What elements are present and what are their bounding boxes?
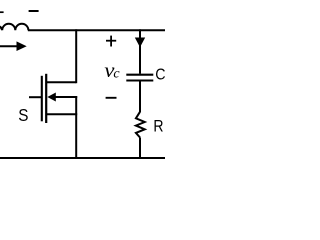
wire (top rail)	[28, 29, 165, 31]
capacitor current arrowhead	[135, 38, 145, 48]
inductor L	[0, 24, 28, 31]
svg-text:C: C	[155, 66, 165, 84]
wire (cropped stub, top-left corner)	[0, 11, 4, 13]
wire (body/source down to bottom rail)	[75, 96, 77, 159]
transistor Q (switch S) gate lead	[29, 96, 42, 98]
label minus (inductor voltage polarity)	[29, 10, 39, 12]
inductor current arrowhead	[17, 41, 27, 51]
svg-text:S: S	[18, 105, 28, 125]
inductor current arrow iL	[0, 45, 18, 47]
svg-text:R: R	[153, 118, 163, 136]
transistor body arrow shaft	[54, 96, 77, 98]
wire (drain to top rail)	[75, 29, 77, 83]
resistor R zigzag	[136, 112, 145, 138]
label minus (capacitor voltage polarity)	[106, 97, 117, 99]
wire (top rail to capacitor)	[139, 29, 141, 73]
transistor body arrowhead	[47, 93, 55, 102]
capacitor C top plate	[126, 74, 153, 76]
transistor source stub	[46, 113, 77, 115]
transistor gate bar	[41, 76, 43, 122]
capacitor C bottom plate	[126, 79, 153, 81]
wire (capacitor to resistor)	[139, 81, 141, 113]
wire (bottom rail)	[0, 157, 165, 159]
svg-text:c: c	[113, 66, 120, 81]
transistor channel bar	[45, 74, 47, 123]
label plus (capacitor voltage polarity)	[106, 36, 116, 47]
wire (resistor to bottom rail)	[139, 138, 141, 160]
transistor drain stub	[46, 81, 76, 83]
